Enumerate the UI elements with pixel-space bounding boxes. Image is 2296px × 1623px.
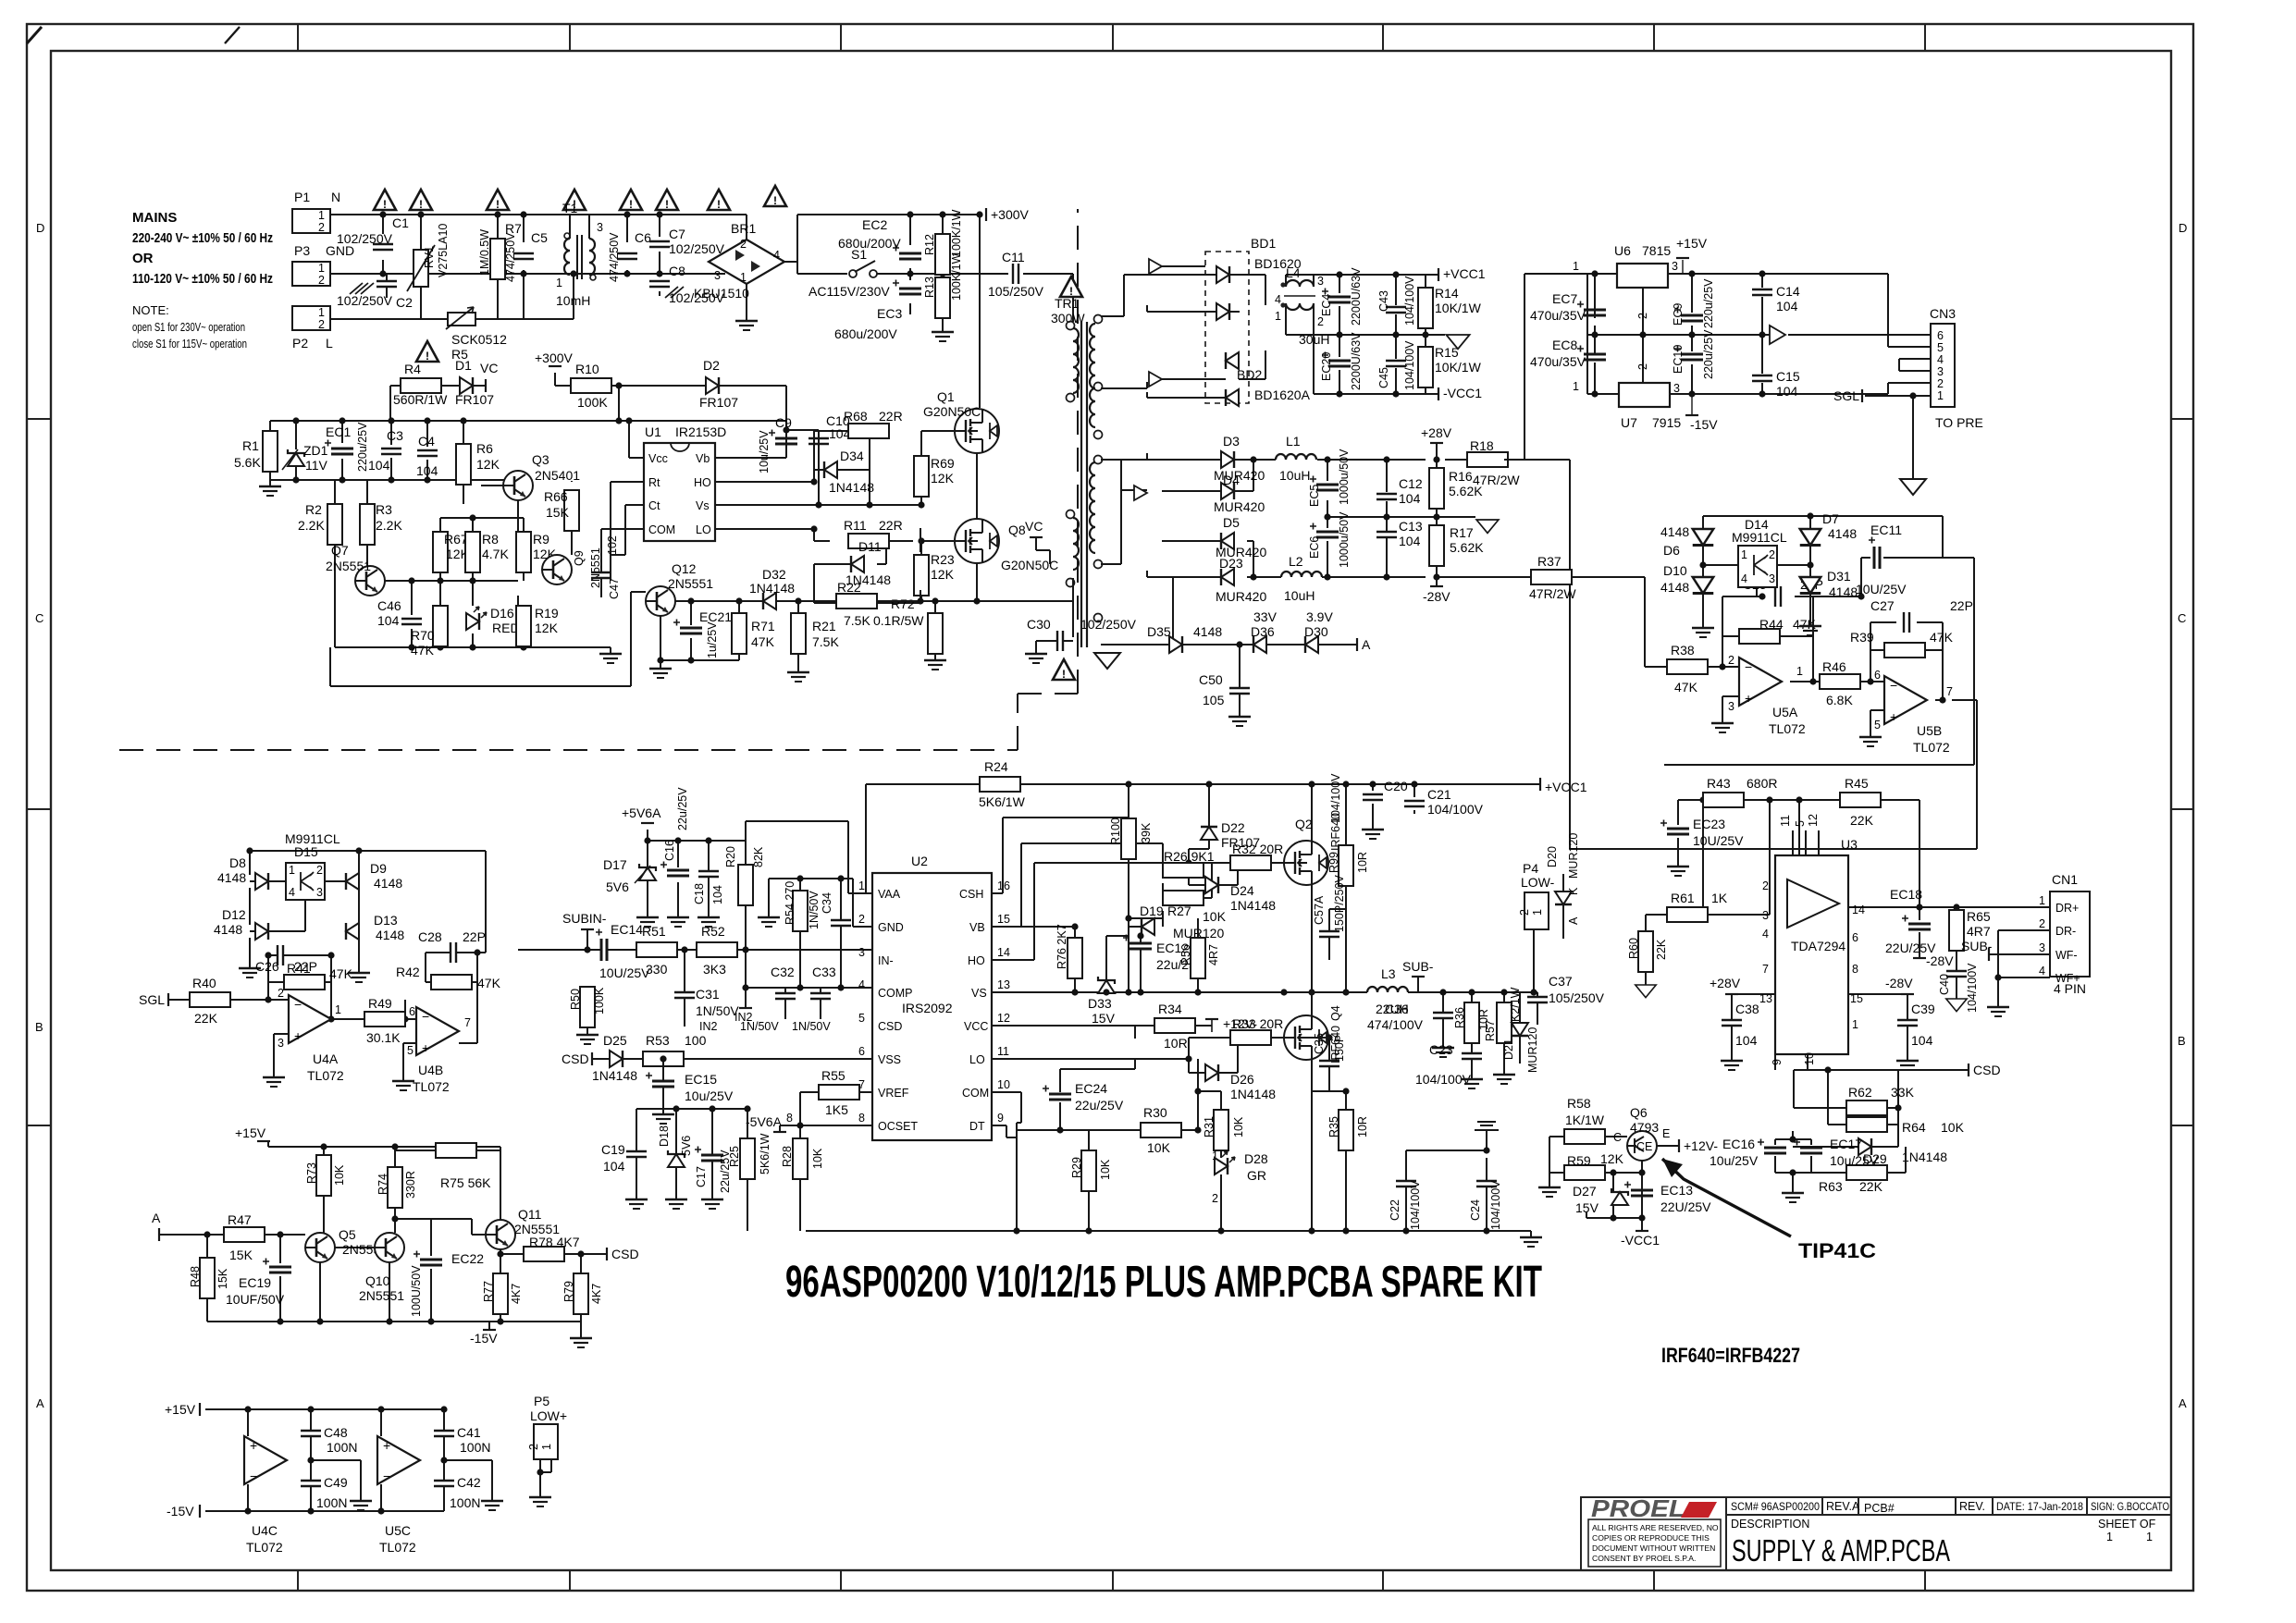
svg-text:82K: 82K [752, 846, 765, 867]
svg-text:EC9: EC9 [1672, 303, 1685, 326]
svg-text:4: 4 [1741, 572, 1747, 585]
svg-text:C42: C42 [457, 1475, 481, 1490]
svg-text:R15: R15 [1435, 345, 1459, 360]
svg-text:R76 2K7: R76 2K7 [1055, 924, 1068, 969]
svg-text:104: 104 [1911, 1033, 1933, 1048]
svg-text:3: 3 [1937, 365, 1944, 378]
connector P3 [292, 262, 330, 286]
svg-text:1: 1 [740, 271, 747, 284]
svg-text:N: N [331, 190, 340, 204]
svg-text:D24: D24 [1230, 883, 1254, 898]
svg-text:R99: R99 [1327, 852, 1340, 873]
svg-text:2N5551: 2N5551 [326, 559, 371, 573]
svg-text:R20: R20 [724, 846, 737, 867]
resistor R31 [1214, 1110, 1228, 1150]
svg-text:R43: R43 [1707, 776, 1731, 791]
svg-text:−: − [1745, 659, 1752, 674]
svg-text:1: 1 [1275, 310, 1281, 323]
svg-text:IR2153D: IR2153D [675, 424, 726, 439]
svg-text:C34: C34 [821, 892, 833, 914]
resistor R63 [1846, 1165, 1887, 1180]
svg-text:R52: R52 [701, 924, 725, 939]
svg-text:4: 4 [2039, 965, 2045, 977]
svg-text:R32 20R: R32 20R [1232, 842, 1283, 856]
svg-text:2N5551: 2N5551 [359, 1288, 404, 1303]
svg-text:C18: C18 [693, 883, 706, 904]
svg-text:2: 2 [1636, 363, 1649, 370]
svg-text:R38: R38 [1671, 643, 1695, 658]
capacitors C22 C24 [1406, 1130, 1487, 1231]
svg-text:−: − [250, 1469, 257, 1483]
diode D2 [706, 377, 719, 394]
svg-text:Q8: Q8 [1008, 523, 1026, 537]
svg-text:10u/25V: 10u/25V [685, 1088, 734, 1103]
svg-text:Vb: Vb [696, 452, 710, 465]
svg-text:EC11: EC11 [1870, 523, 1902, 537]
svg-text:10u/25V: 10u/25V [1830, 1153, 1879, 1168]
svg-text:1N/50V: 1N/50V [740, 1020, 779, 1033]
capacitor C49 [301, 1481, 321, 1486]
svg-text:D28: D28 [1244, 1151, 1268, 1166]
svg-text:U7: U7 [1621, 415, 1637, 430]
svg-text:VCC: VCC [964, 1020, 988, 1033]
svg-text:R70: R70 [411, 628, 435, 643]
svg-text:VB: VB [969, 921, 985, 934]
diode D3 [1221, 451, 1234, 468]
svg-text:2: 2 [1212, 1192, 1218, 1205]
resistor R67 [433, 532, 448, 572]
electrolytic EC20 [1322, 352, 1351, 367]
svg-text:5: 5 [1874, 719, 1881, 732]
capacitor C41 [434, 1431, 454, 1436]
svg-text:10U/25V: 10U/25V [1693, 833, 1744, 848]
svg-text:1: 1 [2146, 1531, 2153, 1543]
arrow from TR1 lower [1134, 486, 1147, 500]
dashed section separator [119, 209, 1078, 750]
capacitor C34 [831, 920, 851, 926]
svg-text:C41: C41 [457, 1425, 481, 1440]
resistor R48 [200, 1258, 215, 1298]
svg-text:CSD: CSD [562, 1051, 589, 1066]
svg-text:Q12: Q12 [672, 561, 697, 576]
svg-text:D26: D26 [1230, 1072, 1254, 1087]
svg-text:C: C [1613, 1131, 1622, 1144]
resistor R55 + VREF [780, 1092, 872, 1231]
svg-text:13: 13 [997, 978, 1010, 991]
svg-text:SCM# 96ASP00200: SCM# 96ASP00200 [1731, 1502, 1820, 1513]
+12V- flag [1678, 1139, 1680, 1152]
electrolytic EC22 [414, 1251, 442, 1266]
mosfet Q2 [1284, 841, 1328, 885]
svg-text:4148: 4148 [1829, 584, 1858, 599]
resistor R33 [1230, 1030, 1271, 1045]
resistor R36 [1464, 1002, 1479, 1043]
diode D21 [1512, 1023, 1528, 1036]
svg-text:R56: R56 [1179, 944, 1192, 965]
svg-text:22R: 22R [879, 409, 903, 424]
svg-text:R42: R42 [396, 965, 420, 979]
resistor R58 [1564, 1129, 1605, 1144]
svg-text:150P: 150P [1333, 1035, 1346, 1062]
svg-text:1: 1 [1531, 909, 1544, 916]
svg-text:12K: 12K [476, 457, 500, 472]
svg-text:−: − [294, 997, 302, 1012]
resistor R15 [1418, 347, 1433, 387]
svg-text:R61: R61 [1671, 891, 1695, 905]
svg-text:close S1 for 115V~ operation: close S1 for 115V~ operation [132, 337, 247, 350]
capacitor C12 [1376, 494, 1397, 499]
svg-text:680R: 680R [1747, 776, 1777, 791]
capacitor C37 [1537, 992, 1538, 996]
svg-text:R11: R11 [844, 518, 867, 533]
resistor R78 [524, 1247, 564, 1261]
svg-text:TL072: TL072 [307, 1068, 344, 1083]
connector CN1 [2050, 891, 2090, 977]
svg-text:C30: C30 [1027, 617, 1051, 632]
svg-text:D11: D11 [858, 539, 882, 554]
svg-text:VREF: VREF [878, 1087, 909, 1100]
diode BD2b [1226, 389, 1239, 406]
svg-text:P4: P4 [1523, 861, 1538, 876]
svg-text:SHEET OF: SHEET OF [2098, 1518, 2156, 1531]
svg-text:22P: 22P [463, 929, 486, 944]
resistor R60 [1638, 931, 1653, 972]
svg-text:Q4: Q4 [1329, 1005, 1342, 1021]
svg-text:3.9V: 3.9V [1306, 609, 1333, 624]
svg-text:AC115V/230V: AC115V/230V [809, 284, 890, 299]
svg-text:+: + [294, 1028, 302, 1043]
svg-text:5.6K: 5.6K [234, 455, 261, 470]
svg-text:D7: D7 [1822, 511, 1839, 526]
svg-text:−: − [422, 1009, 429, 1024]
resistor R22 [836, 594, 877, 609]
electrolytic EC13 [1624, 1182, 1653, 1197]
svg-text:C46: C46 [377, 598, 401, 613]
resistor R10 [571, 378, 611, 393]
svg-text:D1: D1 [455, 358, 472, 373]
ground triangle below CN3 [1900, 479, 1926, 495]
capacitor C6 [617, 253, 637, 259]
capacitor C2 [376, 281, 397, 287]
svg-text:Q7: Q7 [331, 543, 349, 558]
svg-text:C40: C40 [1938, 974, 1951, 995]
svg-text:R9: R9 [533, 532, 549, 547]
resistor R30 [1141, 1123, 1181, 1137]
svg-text:OCSET: OCSET [878, 1120, 918, 1133]
svg-text:R37: R37 [1537, 554, 1562, 569]
diode D13 [346, 923, 359, 940]
svg-text:TO PRE: TO PRE [1935, 415, 1983, 430]
svg-text:LO: LO [969, 1053, 985, 1066]
capacitor C30 [1057, 631, 1063, 651]
svg-text:3: 3 [1769, 572, 1775, 585]
+5V6A zener rail [648, 830, 746, 1008]
svg-text:C49: C49 [324, 1475, 348, 1490]
resistor R68 [848, 424, 889, 438]
svg-text:15V: 15V [1575, 1200, 1599, 1215]
C19 D18 C17 column [636, 1109, 637, 1150]
electrolytic EC7 [1577, 301, 1606, 316]
svg-text:D35: D35 [1147, 624, 1171, 639]
svg-text:+15V: +15V [1676, 236, 1708, 251]
capacitor C26 [278, 945, 283, 965]
svg-text:R100: R100 [1109, 818, 1122, 845]
svg-text:10R: 10R [1164, 1036, 1188, 1051]
svg-text:10mH: 10mH [556, 293, 590, 308]
VC flag at TR1 [1030, 536, 1043, 538]
svg-text:1: 1 [2106, 1531, 2113, 1543]
svg-text:C11: C11 [1002, 250, 1025, 264]
ground triangle mid [1446, 335, 1469, 349]
svg-text:Rt: Rt [648, 476, 660, 489]
+300V bus [784, 215, 1073, 408]
svg-text:2: 2 [318, 221, 325, 234]
svg-text:104/100V: 104/100V [1329, 773, 1342, 823]
svg-text:4: 4 [858, 978, 865, 991]
resistor R74 [388, 1167, 402, 1208]
svg-text:3: 3 [316, 886, 323, 899]
capacitor C33 [820, 988, 821, 992]
mosfet Q4 [1284, 1015, 1328, 1060]
svg-text:220-240 V~ ±10% 50 / 60 Hz: 220-240 V~ ±10% 50 / 60 Hz [132, 230, 273, 246]
electrolytic EC16 [1758, 1139, 1786, 1154]
svg-text:10U/25V: 10U/25V [599, 965, 650, 980]
svg-text:WF-: WF- [2055, 949, 2078, 962]
zone letters [35, 221, 2187, 1410]
svg-text:C57A: C57A [1313, 895, 1326, 925]
svg-text:R62: R62 [1848, 1085, 1872, 1100]
svg-text:105: 105 [1203, 693, 1225, 707]
svg-text:12: 12 [1807, 814, 1820, 827]
resistor R26 [1163, 863, 1204, 878]
svg-text:L4: L4 [1286, 265, 1301, 280]
svg-text:1M/0.5W: 1M/0.5W [478, 229, 491, 276]
svg-text:1: 1 [858, 879, 865, 892]
svg-text:4R7: 4R7 [1207, 944, 1220, 965]
svg-text:96ASP00200 V10/12/15 PLUS AMP.: 96ASP00200 V10/12/15 PLUS AMP.PCBA SPARE… [785, 1258, 1542, 1307]
resistor R46 [1820, 674, 1860, 689]
resistor R73 [316, 1155, 331, 1196]
svg-text:8: 8 [786, 1112, 793, 1125]
svg-text:A: A [1362, 637, 1371, 652]
svg-text:22u/25V: 22u/25V [719, 1150, 732, 1193]
svg-text:EC13: EC13 [1660, 1183, 1693, 1198]
svg-text:4K7: 4K7 [590, 1284, 603, 1304]
electrolytic EC18 [1902, 916, 1931, 930]
svg-text:T1: T1 [562, 201, 578, 215]
svg-text:47K: 47K [477, 976, 501, 990]
corner slash marks [27, 27, 42, 43]
svg-text:22K: 22K [1859, 1179, 1883, 1194]
svg-text:4.7K: 4.7K [482, 547, 509, 561]
resistor R76 [1068, 938, 1082, 978]
svg-text:R10: R10 [575, 362, 599, 376]
svg-text:REV.A: REV.A [1826, 1500, 1860, 1513]
diode D12 [255, 923, 268, 940]
svg-text:1N4148: 1N4148 [1230, 898, 1276, 913]
svg-text:4148: 4148 [374, 876, 402, 891]
svg-text:10U/25V: 10U/25V [1856, 582, 1907, 596]
svg-text:-5V6A: -5V6A [746, 1114, 783, 1129]
capacitor C46 [401, 619, 422, 624]
svg-text:R45: R45 [1845, 776, 1869, 791]
svg-text:3K3: 3K3 [703, 962, 726, 977]
electrolytic EC10 [1674, 346, 1703, 361]
resistor R35 [1339, 1110, 1353, 1150]
op-amp U4B [416, 1007, 459, 1055]
electrolytic EC15 [646, 1073, 674, 1088]
svg-text:10K: 10K [333, 1164, 346, 1186]
svg-text:Q5: Q5 [339, 1227, 356, 1242]
svg-text:CSD: CSD [878, 1020, 902, 1033]
svg-text:680u/200V: 680u/200V [838, 236, 901, 251]
svg-text:C14: C14 [1776, 284, 1800, 299]
optocoupler D15 [286, 863, 325, 900]
BD1/BD2 dashed block [1205, 252, 1249, 403]
svg-text:D32: D32 [762, 567, 786, 582]
svg-text:104: 104 [1776, 299, 1798, 314]
svg-text:EC16: EC16 [1722, 1137, 1755, 1151]
svg-text:VS: VS [971, 987, 987, 1000]
svg-text:COPIES OR REPRODUCE THIS: COPIES OR REPRODUCE THIS [1592, 1533, 1710, 1543]
svg-text:+: + [250, 1438, 257, 1453]
svg-text:4148: 4148 [214, 922, 242, 937]
svg-text:4148: 4148 [217, 870, 246, 885]
svg-text:C4: C4 [418, 434, 435, 449]
wire AC top [330, 215, 747, 319]
svg-text:MUR420: MUR420 [1216, 589, 1266, 604]
svg-text:EC5: EC5 [1308, 485, 1321, 507]
svg-text:R54 270: R54 270 [784, 881, 796, 925]
svg-text:BR1: BR1 [731, 221, 756, 236]
svg-text:R14: R14 [1435, 286, 1459, 301]
Q2/Q4 source-drain chain [1312, 885, 1346, 1091]
svg-text:2: 2 [278, 987, 284, 1000]
svg-text:104: 104 [368, 458, 390, 473]
svg-text:105/250V: 105/250V [1549, 990, 1605, 1005]
resistor R41 [284, 975, 325, 990]
op-amp U5B [1884, 676, 1927, 724]
-VCC1 flag [1438, 387, 1439, 400]
warning triangles [374, 190, 396, 211]
svg-text:330R: 330R [404, 1171, 417, 1199]
svg-text:R77: R77 [482, 1281, 495, 1302]
svg-text:COM: COM [648, 523, 675, 536]
svg-text:REV.: REV. [1959, 1500, 1985, 1513]
ground under BR1 [746, 305, 747, 314]
op-amp U5C [377, 1436, 420, 1484]
svg-text:100K: 100K [577, 395, 608, 410]
svg-text:R23: R23 [931, 552, 955, 567]
svg-text:A: A [152, 1211, 161, 1225]
svg-text:C7: C7 [669, 227, 685, 241]
svg-text:1000u/50V: 1000u/50V [1338, 511, 1351, 568]
svg-text:MUR120: MUR120 [1526, 1027, 1539, 1073]
svg-text:5.62K: 5.62K [1450, 540, 1484, 555]
svg-text:5V6: 5V6 [606, 879, 629, 894]
svg-text:D33: D33 [1088, 996, 1112, 1011]
svg-text:7: 7 [1762, 963, 1769, 976]
resistor R23 [914, 555, 929, 596]
resistor R39 [1884, 643, 1925, 658]
svg-text:2: 2 [1728, 654, 1734, 667]
svg-text:220u/25V: 220u/25V [356, 422, 369, 472]
resistor R12 [935, 234, 950, 275]
svg-text:R13: R13 [923, 277, 936, 298]
svg-text:9: 9 [997, 1112, 1004, 1125]
svg-text:R35: R35 [1327, 1116, 1340, 1137]
C35 cap [1328, 1038, 1330, 1060]
svg-text:C36: C36 [1385, 1002, 1409, 1016]
svg-text:ALL RIGHTS ARE RESERVED, NO: ALL RIGHTS ARE RESERVED, NO [1592, 1523, 1719, 1532]
svg-text:+VCC1: +VCC1 [1545, 780, 1587, 794]
svg-text:15: 15 [997, 913, 1010, 926]
svg-text:47R/2W: 47R/2W [1529, 586, 1576, 601]
resistor R42 [431, 975, 472, 990]
svg-text:D25: D25 [603, 1033, 627, 1048]
svg-text:E: E [1662, 1127, 1670, 1140]
diode D19 [1142, 918, 1154, 935]
svg-text:R22: R22 [837, 580, 861, 595]
svg-text:EC19: EC19 [239, 1275, 271, 1290]
svg-text:22P: 22P [1950, 598, 1973, 613]
svg-text:2.2K: 2.2K [298, 518, 325, 533]
capacitor C18 [698, 871, 719, 877]
svg-text:3: 3 [1673, 382, 1680, 395]
svg-text:R66: R66 [544, 489, 568, 504]
svg-text:R47: R47 [228, 1212, 252, 1227]
svg-text:C1: C1 [392, 215, 409, 230]
svg-text:30.1K: 30.1K [366, 1030, 401, 1045]
svg-text:C23: C23 [1429, 1042, 1453, 1057]
capacitor C20 [1363, 794, 1383, 800]
connector P2 [292, 306, 330, 330]
svg-text:1: 1 [1937, 389, 1944, 402]
svg-text:VC: VC [480, 361, 498, 375]
R54 / C34 [746, 879, 872, 988]
svg-text:DT: DT [969, 1120, 985, 1133]
CSD flag [1968, 1064, 1969, 1076]
diode D25 [610, 1051, 623, 1067]
electrolytic EC17 [1794, 1139, 1822, 1154]
svg-text:PCB#: PCB# [1864, 1502, 1895, 1515]
svg-text:EC22: EC22 [451, 1251, 484, 1266]
svg-text:4148: 4148 [1193, 624, 1222, 639]
A flag [158, 1228, 160, 1241]
svg-text:2: 2 [858, 913, 865, 926]
svg-text:12K: 12K [931, 567, 955, 582]
capacitor C27 [1904, 612, 1909, 633]
svg-text:6: 6 [1937, 329, 1944, 342]
resistor R43 [1703, 793, 1744, 807]
svg-text:4793: 4793 [1630, 1120, 1659, 1135]
svg-text:5: 5 [1794, 820, 1807, 827]
resistor R40 [190, 992, 230, 1007]
svg-text:10K: 10K [1203, 909, 1227, 924]
svg-text:R73: R73 [305, 1162, 318, 1184]
svg-text:-28V: -28V [1885, 976, 1913, 990]
svg-text:10UF/50V: 10UF/50V [226, 1292, 285, 1307]
svg-text:2: 2 [527, 1444, 540, 1450]
svg-text:C8: C8 [669, 264, 685, 278]
svg-text:330: 330 [646, 962, 668, 977]
svg-text:11: 11 [997, 1045, 1009, 1058]
svg-text:TDA7294: TDA7294 [1791, 939, 1845, 953]
capacitor C11 [1013, 264, 1018, 284]
op-amp U4C [244, 1436, 287, 1484]
svg-text:47K: 47K [751, 634, 775, 649]
svg-text:CSD: CSD [611, 1247, 639, 1261]
